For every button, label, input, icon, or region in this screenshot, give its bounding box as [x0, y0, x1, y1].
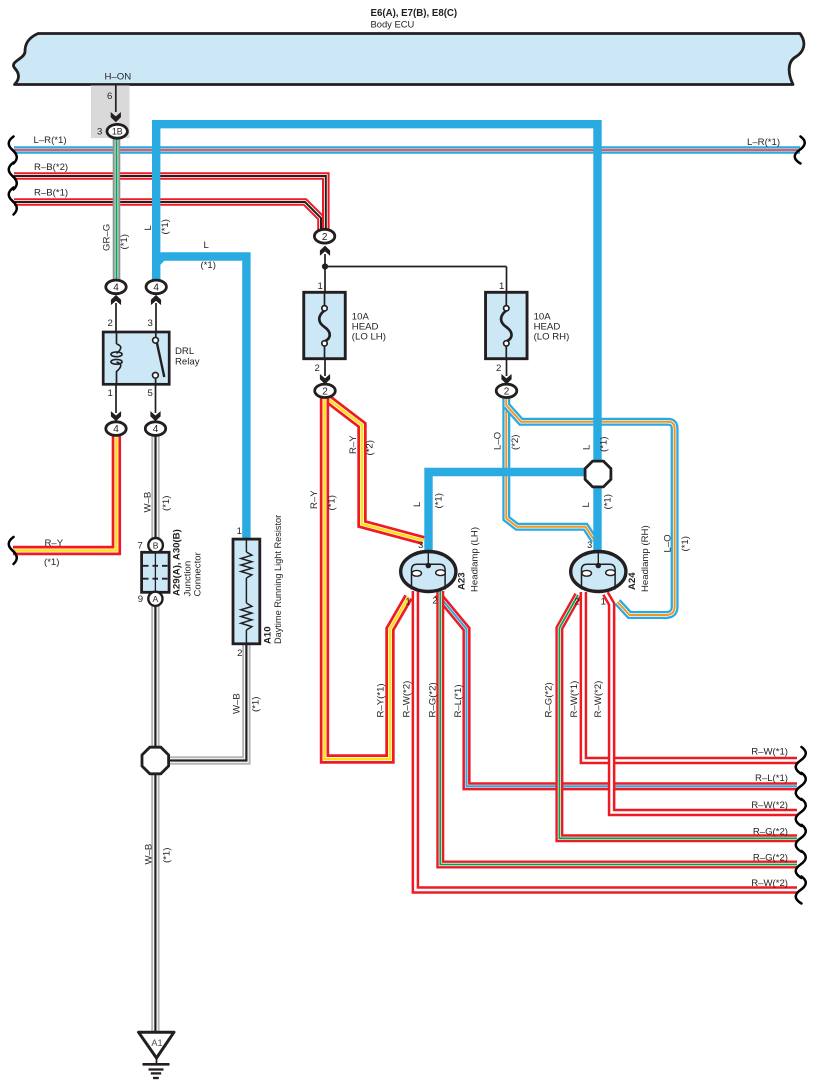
- torn end R–B(*2) left: [9, 163, 17, 190]
- connector oval 2 below RH fuse: [501, 374, 511, 384]
- svg-text:2: 2: [432, 596, 437, 607]
- wire R–L(*1) A23 pin2 down to right edge: [438, 594, 798, 786]
- svg-text:(*1): (*1): [44, 557, 59, 568]
- svg-text:6: 6: [107, 91, 112, 102]
- svg-text:R–G(*2): R–G(*2): [544, 682, 555, 717]
- svg-text:L: L: [582, 444, 593, 450]
- svg-text:(*2): (*2): [510, 435, 521, 450]
- wire W–B octagon node down to ground A1: [151, 774, 159, 1034]
- svg-text:1: 1: [318, 281, 323, 292]
- svg-text:2: 2: [237, 648, 242, 659]
- torn end L–R left: [9, 137, 17, 164]
- svg-text:3: 3: [97, 127, 102, 138]
- svg-text:(*1): (*1): [603, 494, 614, 509]
- octagon splice node on L wire: [585, 461, 611, 487]
- svg-text:R–W(*1): R–W(*1): [751, 747, 788, 758]
- wire L thick blue branch to A10 resistor: [156, 257, 246, 541]
- connector oval 4 upper left: [106, 280, 126, 294]
- wire R–Y(*1) LH fuse down, across, up to A23 pin 1: [325, 398, 409, 760]
- svg-text:2: 2: [496, 363, 501, 374]
- ground A1: [139, 1032, 175, 1058]
- svg-text:3: 3: [587, 540, 592, 550]
- wire L–O(*1) RH fuse right, down, to A24 pin 1: [507, 406, 675, 616]
- wire R–G(*2) A24 pin2 down to right edge: [559, 595, 797, 838]
- svg-text:R–W(*2): R–W(*2): [402, 681, 413, 718]
- junction dot node: [322, 263, 328, 269]
- svg-text:1: 1: [499, 281, 504, 292]
- wire L–O(*2) RH fuse to A24 pin 3: [506, 398, 594, 541]
- wire R–G(*2) A23 pin2 down to right edge: [440, 591, 797, 865]
- svg-text:A10: A10: [263, 626, 274, 644]
- svg-text:Headlamp (LH): Headlamp (LH): [470, 527, 481, 592]
- svg-text:L–R(*1): L–R(*1): [34, 135, 67, 146]
- svg-text:Daytime Running Light Resistor: Daytime Running Light Resistor: [273, 515, 283, 644]
- svg-text:(*1): (*1): [434, 493, 445, 508]
- wire R–W(*1) A24 pin2 down to right edge: [583, 592, 797, 761]
- svg-text:(*1): (*1): [680, 536, 691, 551]
- connector oval 4 upper right: [146, 280, 166, 294]
- svg-text:R–Y: R–Y: [309, 490, 320, 509]
- svg-text:5: 5: [148, 388, 153, 399]
- svg-text:1: 1: [237, 526, 242, 537]
- wire relay pin3 line: [155, 303, 157, 332]
- svg-text:DRL: DRL: [175, 346, 195, 357]
- svg-text:2: 2: [315, 363, 320, 374]
- svg-text:3: 3: [148, 318, 153, 329]
- torn end R–W(*2) right: [796, 877, 806, 904]
- svg-text:1: 1: [108, 388, 113, 399]
- wire W–B junction connector to octagon ground node: [151, 605, 159, 747]
- torn end R–G(*2) right: [796, 851, 806, 878]
- svg-text:1: 1: [405, 597, 410, 608]
- svg-text:R–W(*2): R–W(*2): [751, 800, 788, 811]
- svg-text:R–B(*2): R–B(*2): [34, 162, 68, 173]
- svg-text:7: 7: [138, 541, 143, 552]
- svg-text:(*1): (*1): [327, 495, 338, 510]
- svg-text:A23: A23: [457, 572, 468, 590]
- wire R–B(*2) horizontal: [14, 176, 326, 232]
- wire GR–G from 1B to DRL relay: [113, 138, 121, 281]
- headlamp A24 (RH): [571, 552, 626, 592]
- wire L–R(*1) horizontal: [14, 146, 800, 153]
- svg-text:R–G(*2): R–G(*2): [753, 853, 788, 864]
- svg-text:2: 2: [322, 386, 328, 397]
- svg-text:9: 9: [138, 594, 143, 605]
- wire R–W(*2) A23 pin1 down to right edge: [415, 591, 797, 890]
- svg-text:W–B: W–B: [143, 492, 154, 513]
- torn end R–L(*1) right: [796, 773, 806, 800]
- svg-text:(*1): (*1): [251, 697, 262, 712]
- svg-text:L: L: [412, 501, 423, 507]
- wire fuse feed from H-fuse node: [324, 254, 326, 306]
- arrow into 1B: [111, 112, 121, 122]
- wire R–Y(*1) relay pin1 to torn end: [13, 434, 116, 551]
- torn end L–R right: [795, 137, 805, 164]
- svg-text:H–ON: H–ON: [105, 72, 132, 83]
- svg-text:2: 2: [322, 232, 328, 243]
- svg-text:(*1): (*1): [119, 234, 130, 249]
- connector oval 4 lower right: [150, 411, 160, 421]
- svg-text:L–O: L–O: [663, 534, 674, 552]
- svg-text:3: 3: [418, 540, 423, 550]
- wire R–W(*2) A24 pin1 down to right edge: [606, 594, 798, 813]
- svg-text:1: 1: [601, 597, 606, 608]
- svg-text:(*1): (*1): [599, 437, 610, 452]
- svg-text:(*1): (*1): [161, 496, 172, 511]
- connector oval 4 lower left: [111, 411, 121, 421]
- svg-text:A1: A1: [151, 1038, 162, 1048]
- svg-text:R–G(*2): R–G(*2): [428, 682, 439, 717]
- headlamp A23 (LH): [401, 552, 456, 592]
- wire L thick blue octagon to A23 pin 3: [429, 472, 598, 552]
- svg-text:4: 4: [153, 424, 159, 435]
- torn end R–Y left: [9, 537, 17, 564]
- svg-text:R–Y: R–Y: [348, 435, 359, 454]
- wire R–B(*1) horizontal: [14, 202, 321, 232]
- svg-text:(*1): (*1): [160, 219, 171, 234]
- svg-text:R–W(*1): R–W(*1): [569, 681, 580, 718]
- svg-text:1B: 1B: [112, 126, 123, 136]
- svg-text:A24: A24: [627, 572, 638, 590]
- svg-text:L–R(*1): L–R(*1): [747, 137, 780, 148]
- wire R–Y(*2) LH fuse to headlamp pin 3: [328, 399, 424, 541]
- Body ECU block E6/E7/E8: [13, 34, 803, 85]
- connector oval 2 below LH fuse: [320, 374, 330, 384]
- svg-text:(*1): (*1): [162, 848, 173, 863]
- svg-text:(*2): (*2): [365, 440, 376, 455]
- svg-text:R–L(*1): R–L(*1): [755, 773, 788, 784]
- torn end R–G(*2) right: [796, 825, 806, 852]
- wire W–B from A10 resistor to octagon node: [169, 644, 246, 761]
- svg-text:E6(A), E7(B), E8(C): E6(A), E7(B), E8(C): [371, 8, 458, 19]
- svg-text:2: 2: [504, 386, 510, 397]
- wire relay pin5 line: [155, 384, 157, 413]
- svg-text:Headlamp (RH): Headlamp (RH): [640, 525, 651, 592]
- svg-text:(LO RH): (LO RH): [534, 332, 570, 343]
- svg-text:(LO LH): (LO LH): [352, 332, 386, 343]
- torn end R–B(*1) left: [9, 188, 17, 215]
- wire W–B relay pin5 down: [151, 434, 159, 539]
- svg-text:Body ECU: Body ECU: [371, 19, 415, 30]
- connector oval 2 (R–B junction): [314, 229, 334, 243]
- connector 1B: [107, 124, 127, 138]
- torn end R–W(*1) right: [796, 747, 806, 774]
- svg-text:Relay: Relay: [175, 357, 200, 368]
- junction connector A29/A30: [148, 538, 163, 553]
- svg-text:A: A: [153, 594, 159, 604]
- svg-text:L–O: L–O: [493, 432, 504, 450]
- wire L thick blue: ECU 1B area up-over-down to octagon junction and A24 pin 3: [156, 124, 597, 553]
- fuse 10A HEAD (LO RH): [486, 292, 528, 358]
- wire pin6: [115, 85, 117, 112]
- wire relay pin2 line: [115, 303, 117, 332]
- svg-text:R–B(*1): R–B(*1): [34, 188, 68, 199]
- svg-text:R–Y: R–Y: [45, 538, 64, 549]
- svg-text:(*1): (*1): [201, 260, 216, 271]
- svg-text:R–W(*2): R–W(*2): [593, 681, 604, 718]
- connector shading band pin 6 to 3/1B: [91, 86, 130, 139]
- relay switch contact: [155, 332, 157, 337]
- svg-text:L: L: [143, 225, 154, 231]
- svg-text:L: L: [581, 502, 592, 508]
- svg-text:Connector: Connector: [193, 551, 204, 596]
- svg-text:W–B: W–B: [144, 844, 155, 865]
- resistor A10 Daytime Running Light Resistor: [233, 539, 260, 644]
- svg-text:L: L: [204, 240, 210, 251]
- relay coil: [116, 332, 118, 344]
- svg-text:GR–G: GR–G: [102, 224, 113, 251]
- svg-text:4: 4: [113, 283, 119, 294]
- torn end R–W(*2) right: [796, 799, 806, 826]
- fuse 10A HEAD (LO LH): [304, 292, 346, 358]
- svg-text:2: 2: [574, 597, 579, 608]
- svg-text:R–L(*1): R–L(*1): [453, 684, 464, 717]
- svg-text:R–G(*2): R–G(*2): [753, 827, 788, 838]
- svg-text:R–Y(*1): R–Y(*1): [376, 683, 387, 717]
- svg-text:2: 2: [108, 318, 113, 329]
- svg-text:W–B: W–B: [232, 693, 243, 714]
- svg-text:4: 4: [113, 424, 119, 435]
- octagon ground splice node: [142, 747, 169, 774]
- DRL relay box: [103, 332, 169, 384]
- svg-text:R–W(*2): R–W(*2): [751, 878, 788, 889]
- svg-text:B: B: [153, 540, 159, 550]
- svg-text:4: 4: [153, 283, 159, 294]
- svg-text:A29(A), A30(B): A29(A), A30(B): [172, 529, 183, 596]
- wire relay pin1 line: [115, 384, 117, 413]
